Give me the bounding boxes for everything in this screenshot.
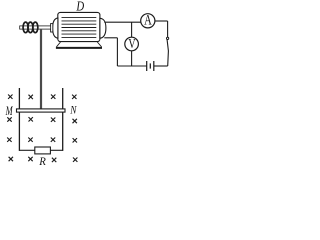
svg-text:D: D — [76, 0, 85, 13]
svg-text:N: N — [69, 105, 77, 117]
svg-text:V: V — [128, 36, 135, 51]
svg-text:R: R — [38, 154, 46, 168]
svg-text:M: M — [5, 103, 13, 118]
svg-text:A: A — [144, 13, 152, 29]
